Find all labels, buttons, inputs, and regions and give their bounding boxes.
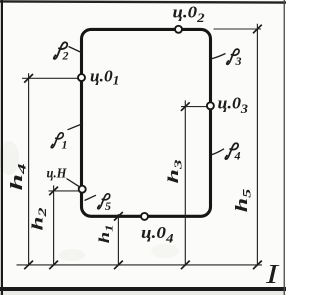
svg-text:1: 1 bbox=[62, 138, 68, 152]
leader line to rho4 bbox=[212, 149, 225, 155]
svg-text:5: 5 bbox=[105, 199, 111, 213]
tick at top of h5 bbox=[253, 25, 262, 34]
svg-text:h2: h2 bbox=[30, 207, 50, 230]
svg-text:ц.01: ц.01 bbox=[90, 67, 120, 88]
leader line to rho5 bbox=[85, 195, 97, 200]
svg-text:4: 4 bbox=[234, 149, 241, 163]
svg-text:h3: h3 bbox=[166, 159, 185, 184]
leader line to rho1 bbox=[68, 124, 84, 130]
extension line from loop top edge (h5) bbox=[214, 28, 262, 30]
frame top edge bbox=[0, 0, 290, 3]
scan smudge left bbox=[0, 141, 19, 175]
tick at baseline of h4 bbox=[24, 261, 33, 270]
frame bottom edge bbox=[0, 287, 286, 291]
station circle ц.О.3 on right edge bbox=[207, 102, 214, 109]
frame right edge bbox=[284, 0, 285, 295]
station circle ц.Н on left edge bbox=[79, 186, 86, 193]
station circle ц.О.2 on top edge bbox=[175, 26, 182, 33]
station circle ц.О.4 on bottom edge bbox=[141, 213, 148, 220]
scan smudge bottom-middle bbox=[151, 244, 179, 258]
svg-text:ц.Н: ц.Н bbox=[47, 166, 67, 181]
label rho5 bbox=[98, 194, 111, 213]
label rho3 bbox=[227, 49, 242, 68]
frame bottom lighter strip bbox=[0, 291, 286, 295]
dimension line h5 vertical bbox=[256, 24, 258, 265]
label rho1 bbox=[51, 133, 67, 152]
tick at baseline of h5 bbox=[253, 261, 262, 270]
leader line to ц.Н label bbox=[67, 179, 80, 187]
extension line from station 3 (h3) bbox=[181, 106, 207, 108]
levelling loop (closed traverse rectangle) bbox=[82, 29, 211, 216]
frame left edge bbox=[1, 0, 3, 295]
svg-text:I: I bbox=[265, 259, 281, 289]
label rho4 bbox=[225, 143, 240, 162]
tick at baseline of h1 bbox=[114, 261, 123, 270]
tick at top of h1 (on loop bottom edge) bbox=[114, 212, 123, 221]
svg-text:h1: h1 bbox=[97, 224, 116, 243]
tick at baseline of h2 bbox=[49, 261, 58, 270]
dimension line h3 vertical bbox=[184, 100, 186, 265]
tick at top of h2 bbox=[49, 187, 58, 196]
svg-text:2: 2 bbox=[62, 49, 69, 63]
dimension line h1 vertical bbox=[117, 214, 119, 265]
tick at baseline of h3 bbox=[181, 261, 190, 270]
dimension baseline bbox=[17, 264, 263, 266]
label rho2 bbox=[54, 42, 69, 62]
leader line to rho3 bbox=[212, 54, 226, 59]
station circle ц.О.1 on left edge bbox=[78, 74, 85, 81]
extension line from station 1 (h4) bbox=[22, 77, 78, 79]
leader line to rho2 bbox=[69, 47, 83, 54]
tick at top of h3 bbox=[181, 102, 190, 111]
svg-text:ц.02: ц.02 bbox=[173, 3, 206, 26]
svg-text:h5: h5 bbox=[232, 189, 254, 213]
tick at top of h4 bbox=[24, 74, 33, 83]
svg-text:3: 3 bbox=[235, 54, 242, 68]
scan smudge bottom-left bbox=[59, 249, 85, 261]
svg-text:ц.04: ц.04 bbox=[141, 223, 174, 246]
svg-text:ц.03: ц.03 bbox=[218, 94, 249, 117]
extension line from station N (h2) bbox=[49, 190, 79, 192]
dimension line h2 vertical bbox=[53, 185, 55, 265]
dimension line h4 vertical bbox=[28, 73, 30, 265]
